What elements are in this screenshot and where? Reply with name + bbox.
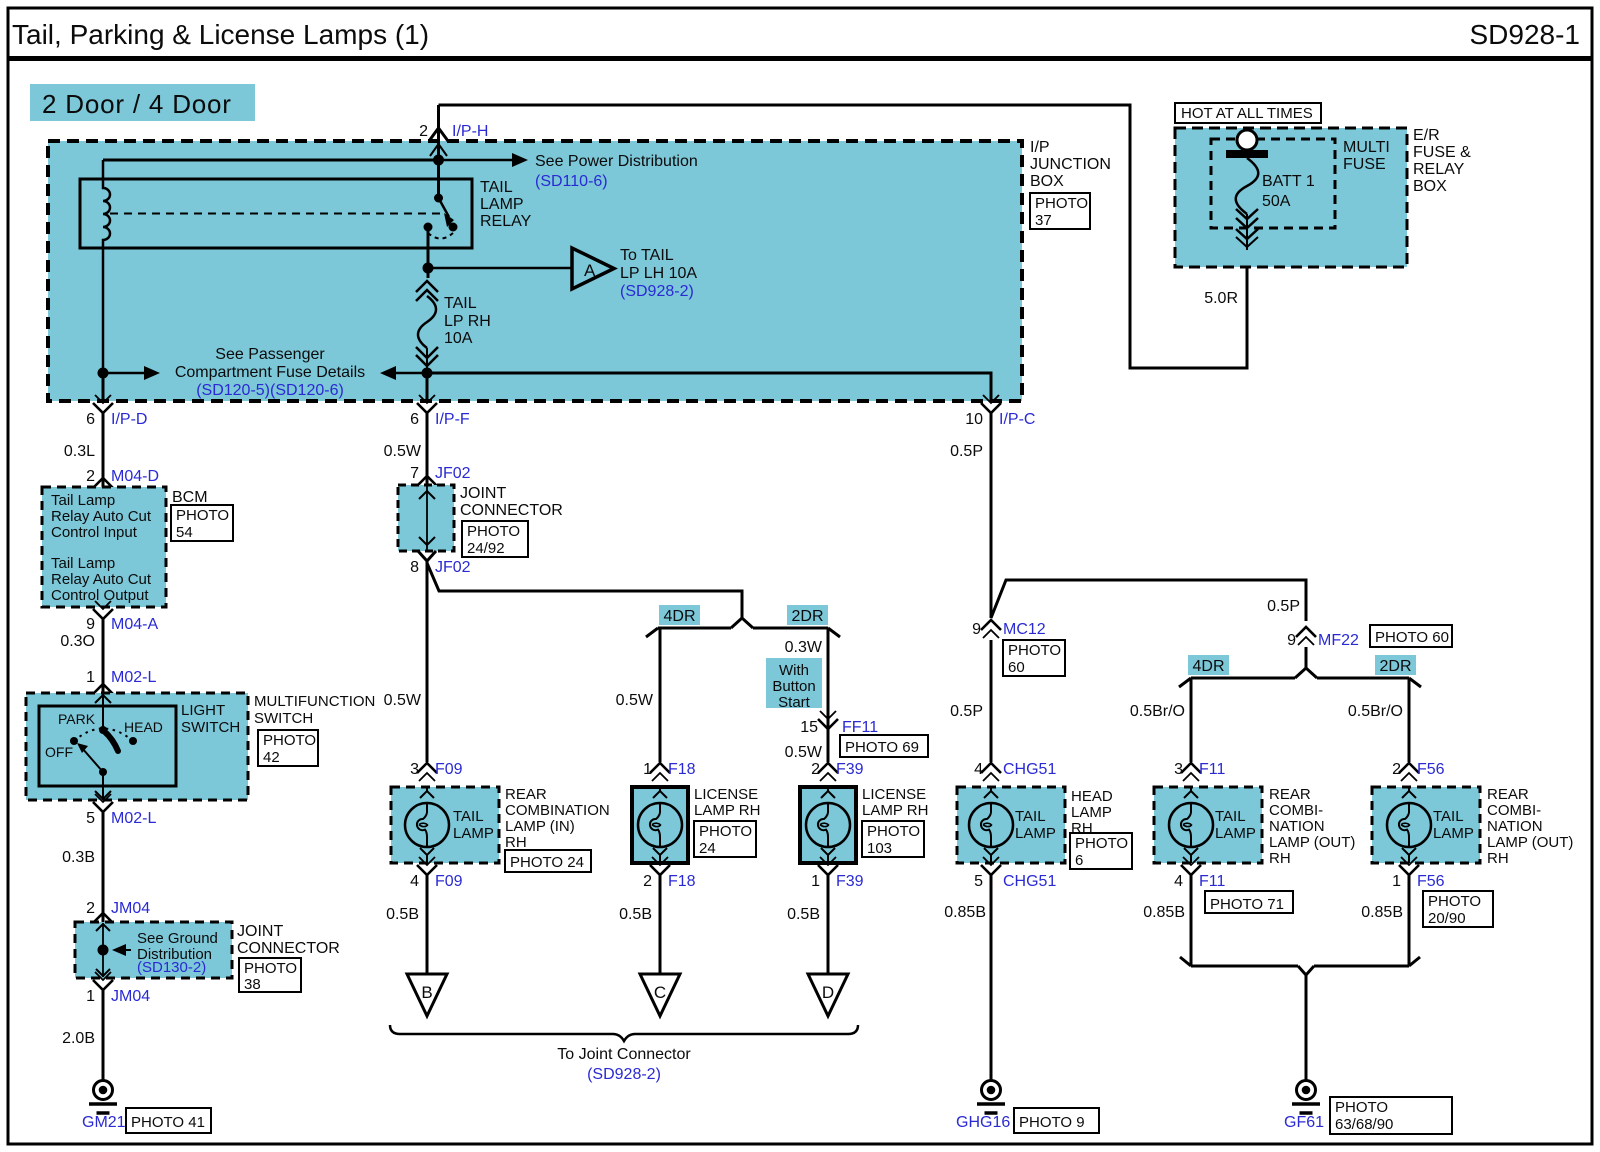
svg-text:Start: Start [778, 694, 811, 711]
node: fuse feed junction [423, 263, 434, 274]
svg-text:RH: RH [505, 834, 527, 851]
svg-text:0.85B: 0.85B [1143, 904, 1185, 921]
wire 0.3O [102, 619, 105, 693]
photo 24 label box [694, 821, 756, 857]
svg-text:I/P-D: I/P-D [111, 411, 147, 428]
wire below multi fuse [1246, 214, 1248, 250]
photo 71 label box [1205, 891, 1293, 913]
HOT AT ALL TIMES label [1175, 103, 1321, 123]
svg-text:NATION: NATION [1269, 818, 1325, 835]
connector 9 MF22 [1296, 627, 1316, 645]
battery terminal circle [1237, 130, 1257, 150]
svg-text:JUNCTION: JUNCTION [1030, 156, 1111, 173]
svg-text:20/90: 20/90 [1428, 910, 1466, 927]
svg-text:2DR: 2DR [1379, 658, 1411, 675]
svg-text:LIGHT: LIGHT [181, 702, 225, 719]
svg-text:Tail Lamp: Tail Lamp [51, 492, 115, 509]
bulb license lamp [638, 803, 682, 847]
connector 4 F11 [1181, 857, 1201, 875]
connector 2 F18 [650, 857, 670, 875]
license lamp RH box (2DR) [800, 787, 856, 863]
connector 1 JM04 [93, 972, 113, 990]
svg-text:15: 15 [800, 719, 818, 736]
svg-text:COMBI-: COMBI- [1487, 802, 1541, 819]
svg-text:HEAD: HEAD [1071, 788, 1113, 805]
see ground distribution arrow [119, 949, 131, 951]
svg-text:F09: F09 [435, 761, 463, 778]
svg-text:1: 1 [86, 669, 95, 686]
wire to coil [103, 159, 439, 162]
svg-text:9: 9 [1287, 632, 1296, 649]
connector 9 MC12 [981, 620, 1001, 638]
connector 6 I/P-F [417, 395, 437, 413]
svg-text:60: 60 [1008, 659, 1025, 676]
svg-text:TAIL: TAIL [444, 295, 477, 312]
connector 1 F39 [818, 857, 838, 875]
svg-text:Tail, Parking & License Lamps: Tail, Parking & License Lamps (1) [12, 19, 429, 50]
svg-text:I/P-C: I/P-C [999, 411, 1035, 428]
ground joint connector box [75, 922, 232, 978]
tail lamp relay box [80, 179, 472, 248]
svg-text:With: With [779, 662, 809, 679]
svg-text:10: 10 [965, 411, 983, 428]
svg-text:LICENSE: LICENSE [694, 786, 758, 803]
brace to joint connector [390, 1025, 858, 1041]
bulb tail lamp 4DR [1169, 803, 1213, 847]
svg-text:PHOTO 24: PHOTO 24 [510, 854, 584, 871]
photo 9 label box [1014, 1108, 1099, 1133]
relay switch top contact [434, 194, 443, 203]
ground GHG16 [977, 1081, 1005, 1114]
JF02 inner wire [426, 486, 428, 550]
photo 54 label box [171, 505, 233, 541]
wire 2.0B [102, 990, 105, 1080]
svg-text:LP LH 10A: LP LH 10A [620, 265, 697, 282]
svg-text:BOX: BOX [1030, 173, 1064, 190]
relay switch blade [439, 198, 450, 217]
svg-text:F18: F18 [668, 873, 696, 890]
fuse TAIL LP RH squiggle [418, 296, 436, 348]
wire branch to 4DR/2DR split [427, 563, 742, 618]
fuse TAIL LP RH 10A chevrons up [416, 281, 438, 292]
svg-text:LAMP: LAMP [480, 196, 524, 213]
svg-text:0.3B: 0.3B [62, 849, 95, 866]
svg-text:M02-L: M02-L [111, 669, 156, 686]
svg-text:FUSE: FUSE [1343, 156, 1386, 173]
wire 0.85B right [1408, 875, 1411, 966]
wire 0.5P to CHG51 [990, 640, 993, 762]
svg-text:TAIL: TAIL [1215, 808, 1246, 825]
bulb tail lamp 2DR [1387, 803, 1431, 847]
svg-text:MULTI: MULTI [1343, 139, 1390, 156]
svg-text:5: 5 [86, 810, 95, 827]
light switch inner box [39, 706, 176, 786]
arrow to see passenger text (left-pointing) [394, 372, 427, 375]
svg-text:LAMP: LAMP [1215, 825, 1256, 842]
harness split [731, 618, 753, 628]
svg-text:LAMP (IN): LAMP (IN) [505, 818, 575, 835]
svg-text:0.5B: 0.5B [386, 906, 419, 923]
svg-text:0.5W: 0.5W [785, 744, 823, 761]
wire 0.5B [827, 875, 830, 974]
bulb head lamp tail [969, 803, 1013, 847]
svg-text:PHOTO: PHOTO [1075, 835, 1128, 852]
connector 3 F11 [1181, 763, 1201, 781]
svg-text:10A: 10A [444, 330, 473, 347]
svg-text:4: 4 [1174, 873, 1183, 890]
svg-text:BCM: BCM [172, 489, 208, 506]
svg-text:E/R: E/R [1413, 127, 1440, 144]
svg-text:CONNECTOR: CONNECTOR [237, 940, 340, 957]
wire 0.5W down to F09 [426, 561, 429, 762]
photo 41 label box [126, 1108, 211, 1133]
photo 63/68/90 label box [1330, 1097, 1452, 1134]
svg-text:RELAY: RELAY [480, 213, 532, 230]
svg-text:63/68/90: 63/68/90 [1335, 1116, 1393, 1133]
svg-text:LAMP: LAMP [1071, 804, 1112, 821]
connector 4 F09 [417, 857, 437, 875]
svg-text:OFF: OFF [45, 744, 73, 760]
svg-text:HEAD: HEAD [124, 719, 163, 735]
connector 1 F56 [1399, 857, 1419, 875]
svg-text:PHOTO: PHOTO [244, 960, 297, 977]
photo 37 label box [1030, 193, 1090, 229]
svg-text:0.5W: 0.5W [616, 692, 654, 709]
svg-text:TAIL: TAIL [480, 179, 513, 196]
connector 2 F39 [818, 763, 838, 781]
svg-text:Control Output: Control Output [51, 587, 149, 604]
svg-text:FUSE &: FUSE & [1413, 144, 1471, 161]
connector 1 F18 [650, 763, 670, 781]
svg-text:JM04: JM04 [111, 900, 150, 917]
svg-text:4DR: 4DR [663, 608, 695, 625]
svg-text:See Passenger: See Passenger [215, 346, 325, 363]
rear combination lamp (out) box 4DR [1154, 787, 1262, 863]
fuse output chevrons [1236, 209, 1258, 219]
svg-text:LAMP (OUT): LAMP (OUT) [1269, 834, 1355, 851]
svg-text:D: D [822, 983, 834, 1002]
connector 4 CHG51 [981, 763, 1001, 781]
svg-text:2: 2 [86, 468, 95, 485]
relay switch dashed arc [428, 233, 453, 239]
connector 8 JF02 [418, 551, 436, 561]
connector 3 F09 [417, 763, 437, 781]
svg-text:50A: 50A [1262, 193, 1291, 210]
title separator bar [8, 56, 1592, 61]
svg-text:F56: F56 [1417, 761, 1445, 778]
svg-text:0.5B: 0.5B [787, 906, 820, 923]
svg-text:Tail Lamp: Tail Lamp [51, 555, 115, 572]
triangle connector C [640, 974, 680, 1016]
svg-text:PARK: PARK [58, 711, 96, 727]
svg-text:RH: RH [1487, 850, 1509, 867]
svg-text:JF02: JF02 [435, 559, 471, 576]
photo 6 label box [1070, 833, 1132, 869]
photo 60 label box [1003, 640, 1065, 676]
svg-text:0.3O: 0.3O [60, 633, 95, 650]
wire 0.5B [659, 875, 662, 974]
svg-text:RELAY: RELAY [1413, 161, 1465, 178]
svg-text:See Ground: See Ground [137, 930, 218, 947]
photo 24/92 label box [462, 521, 528, 557]
svg-text:LAMP RH: LAMP RH [694, 802, 760, 819]
svg-text:0.5B: 0.5B [619, 906, 652, 923]
4DR tag right [1188, 655, 1229, 675]
photo 60 label box (MF22) [1370, 625, 1452, 647]
svg-text:TAIL: TAIL [453, 808, 484, 825]
svg-text:Relay Auto Cut: Relay Auto Cut [51, 571, 152, 588]
svg-text:SWITCH: SWITCH [254, 710, 313, 727]
connector 15 FF11 [818, 711, 838, 729]
svg-text:2 Door / 4 Door: 2 Door / 4 Door [42, 89, 232, 119]
svg-text:F09: F09 [435, 873, 463, 890]
svg-text:PHOTO: PHOTO [699, 823, 752, 840]
relay coil [103, 160, 110, 373]
svg-text:See Power Distribution: See Power Distribution [535, 153, 698, 170]
svg-text:4: 4 [410, 873, 419, 890]
svg-text:6: 6 [86, 411, 95, 428]
svg-text:F39: F39 [836, 873, 864, 890]
multi fuse inner box (dashed) [1211, 139, 1335, 228]
connector 5 M02-L [93, 794, 113, 812]
connector 1 M02-L [93, 684, 113, 702]
svg-text:(SD120-5)(SD120-6): (SD120-5)(SD120-6) [196, 382, 344, 399]
wire 0.5Br/O right [1408, 678, 1411, 762]
switch HEAD contact [129, 737, 137, 745]
svg-text:GHG16: GHG16 [956, 1114, 1010, 1131]
svg-text:1: 1 [811, 873, 820, 890]
wire 0.85B left [1190, 875, 1193, 966]
connector 2 M04-D [93, 478, 113, 496]
svg-text:(SD928-2): (SD928-2) [587, 1066, 661, 1083]
svg-text:JOINT: JOINT [460, 485, 506, 502]
wire into switch [102, 694, 104, 730]
svg-text:Control Input: Control Input [51, 524, 138, 541]
svg-text:6: 6 [410, 411, 419, 428]
svg-text:42: 42 [263, 749, 280, 766]
switch dotted travel arc [74, 729, 133, 742]
photo 20/90 label box [1423, 891, 1493, 927]
svg-text:COMBINATION: COMBINATION [505, 802, 610, 819]
connector 2 I/P-H [429, 128, 448, 141]
triangle connector A [572, 248, 614, 289]
svg-text:0.5W: 0.5W [384, 443, 422, 460]
svg-text:2: 2 [643, 873, 652, 890]
svg-text:I/P-F: I/P-F [435, 411, 470, 428]
photo 24 label box [505, 850, 591, 872]
joint connector JF02 box [398, 485, 454, 551]
svg-text:24: 24 [699, 840, 716, 857]
svg-text:I/P: I/P [1030, 139, 1050, 156]
relay coil-contact dashed link [110, 213, 440, 215]
svg-text:F18: F18 [668, 761, 696, 778]
wire 0.5W [426, 413, 429, 485]
connector 9 M04-A [93, 601, 113, 619]
svg-text:PHOTO 41: PHOTO 41 [131, 1114, 205, 1131]
svg-text:LICENSE: LICENSE [862, 786, 926, 803]
BCM box [42, 487, 166, 607]
photo 42 label box [258, 730, 318, 766]
svg-text:M02-L: M02-L [111, 810, 156, 827]
switch wiper arm [82, 748, 103, 772]
wire 0.5B [426, 875, 429, 974]
wire 0.5Br/O left [1190, 678, 1193, 762]
svg-text:PHOTO: PHOTO [176, 507, 229, 524]
svg-text:2: 2 [811, 761, 820, 778]
svg-text:2DR: 2DR [791, 608, 823, 625]
svg-text:MC12: MC12 [1003, 621, 1046, 638]
multifunction switch box [26, 693, 248, 800]
svg-text:1: 1 [86, 988, 95, 1005]
svg-text:GF61: GF61 [1284, 1114, 1324, 1131]
svg-text:PHOTO: PHOTO [1008, 642, 1061, 659]
svg-text:LAMP (OUT): LAMP (OUT) [1487, 834, 1573, 851]
svg-text:LAMP: LAMP [1433, 825, 1474, 842]
wire junction down to I/P-F [426, 373, 429, 401]
svg-text:JM04: JM04 [111, 988, 150, 1005]
svg-text:0.85B: 0.85B [944, 904, 986, 921]
svg-text:PHOTO: PHOTO [1335, 1099, 1388, 1116]
head lamp RH box [957, 787, 1065, 863]
svg-text:PHOTO 69: PHOTO 69 [845, 739, 919, 756]
2DR tag [787, 605, 828, 625]
svg-text:B: B [421, 983, 432, 1002]
svg-text:5.0R: 5.0R [1204, 290, 1238, 307]
triangle connector D [808, 974, 848, 1016]
fuse bar [1226, 150, 1268, 158]
svg-text:1: 1 [1392, 873, 1401, 890]
svg-text:JOINT: JOINT [237, 923, 283, 940]
svg-text:24/92: 24/92 [467, 540, 505, 557]
svg-text:PHOTO 60: PHOTO 60 [1375, 629, 1449, 646]
svg-text:Button: Button [772, 678, 815, 695]
wire fuse to junction [426, 348, 428, 373]
svg-text:BOX: BOX [1413, 178, 1447, 195]
wire MF22 to split [1305, 647, 1308, 668]
triangle connector B [407, 974, 447, 1016]
svg-text:(SD928-2): (SD928-2) [620, 283, 694, 300]
ground GM21 [89, 1081, 117, 1114]
svg-text:2: 2 [419, 123, 428, 140]
4DR tag [659, 605, 700, 625]
svg-text:2: 2 [86, 900, 95, 917]
svg-text:A: A [584, 261, 596, 280]
svg-text:PHOTO: PHOTO [263, 732, 316, 749]
switch blade [104, 731, 118, 751]
svg-text:F39: F39 [836, 761, 864, 778]
svg-text:JF02: JF02 [435, 465, 471, 482]
svg-text:To Joint Connector: To Joint Connector [557, 1046, 691, 1063]
bulb license lamp 2DR [806, 803, 850, 847]
wire: battery feed 5.0R from E/R box to I/P-H [439, 105, 1248, 368]
svg-text:(SD110-6): (SD110-6) [535, 173, 608, 190]
svg-text:4DR: 4DR [1192, 658, 1224, 675]
wire to triangle A [428, 267, 572, 270]
svg-text:GM21: GM21 [82, 1114, 126, 1131]
node: bus junction right [422, 368, 433, 379]
svg-text:COMBI-: COMBI- [1269, 802, 1323, 819]
rear combination lamp (out) box 2DR [1372, 787, 1480, 863]
svg-text:(SD130-2): (SD130-2) [137, 959, 206, 976]
svg-text:CHG51: CHG51 [1003, 761, 1056, 778]
svg-text:C: C [654, 983, 666, 1002]
svg-text:1: 1 [643, 761, 652, 778]
svg-text:PHOTO 71: PHOTO 71 [1210, 896, 1284, 913]
svg-text:LAMP: LAMP [453, 825, 494, 842]
svg-text:0.85B: 0.85B [1361, 904, 1403, 921]
wire 2DR branch down 0.3W [827, 628, 830, 762]
switch OFF contact [70, 737, 78, 745]
svg-text:SD928-1: SD928-1 [1469, 19, 1580, 50]
2DR tag right [1375, 655, 1416, 675]
svg-text:FF11: FF11 [842, 719, 878, 736]
svg-text:0.5P: 0.5P [950, 443, 983, 460]
svg-text:5: 5 [974, 873, 983, 890]
wire down to I/P-D [102, 373, 105, 401]
fuse TAIL LP RH chevrons down [416, 347, 438, 358]
svg-text:HOT AT ALL TIMES: HOT AT ALL TIMES [1181, 105, 1313, 122]
bulb tail lamp [405, 803, 449, 847]
photo 103 label box [862, 821, 924, 857]
joint connector inner wire [102, 923, 104, 977]
svg-text:TAIL: TAIL [1433, 808, 1464, 825]
with button start tag [766, 658, 822, 708]
svg-text:6: 6 [1075, 852, 1083, 869]
svg-text:F11: F11 [1199, 873, 1225, 890]
svg-text:LAMP: LAMP [1015, 825, 1056, 842]
photo 38 label box [239, 958, 301, 992]
license lamp RH box [632, 787, 688, 863]
svg-text:M04-A: M04-A [111, 616, 158, 633]
wire I/P-H vertical [437, 105, 440, 198]
connector 5 CHG51 [981, 857, 1001, 875]
E/R fuse & relay box (dashed) [1175, 128, 1407, 267]
svg-text:0.5P: 0.5P [950, 703, 983, 720]
svg-text:37: 37 [1035, 212, 1052, 229]
svg-text:Relay Auto Cut: Relay Auto Cut [51, 508, 152, 525]
svg-text:To TAIL: To TAIL [620, 247, 674, 264]
wire 0.5P [990, 413, 993, 618]
svg-text:PHOTO: PHOTO [1035, 195, 1088, 212]
svg-text:CHG51: CHG51 [1003, 873, 1056, 890]
node: bus junction left [98, 368, 109, 379]
wire 0.3B [102, 812, 105, 922]
svg-text:F56: F56 [1417, 873, 1445, 890]
svg-text:MF22: MF22 [1318, 632, 1359, 649]
fuse BATT 1 50A squiggle [1236, 158, 1259, 214]
svg-text:0.3L: 0.3L [64, 443, 95, 460]
connector 7 JF02 [417, 476, 437, 494]
wire out of switch [102, 772, 104, 800]
svg-text:REAR: REAR [505, 786, 547, 803]
arrow to see passenger text (right-pointing) [103, 372, 146, 375]
svg-text:PHOTO: PHOTO [867, 823, 920, 840]
photo 69 label box [840, 735, 928, 757]
svg-text:9: 9 [86, 616, 95, 633]
wire bus to I/P-C [427, 373, 991, 401]
ground GF61 [1292, 1081, 1320, 1114]
svg-text:7: 7 [410, 465, 419, 482]
connector 2 F56 [1399, 763, 1419, 781]
svg-text:PHOTO: PHOTO [1428, 893, 1481, 910]
switch PARK contact [99, 726, 107, 734]
svg-text:0.3W: 0.3W [785, 639, 823, 656]
svg-text:RH: RH [1269, 850, 1291, 867]
svg-text:8: 8 [410, 559, 419, 576]
svg-text:0.5Br/O: 0.5Br/O [1348, 703, 1403, 720]
wire branch to MF22 [991, 580, 1306, 621]
switch pivot [99, 768, 107, 776]
